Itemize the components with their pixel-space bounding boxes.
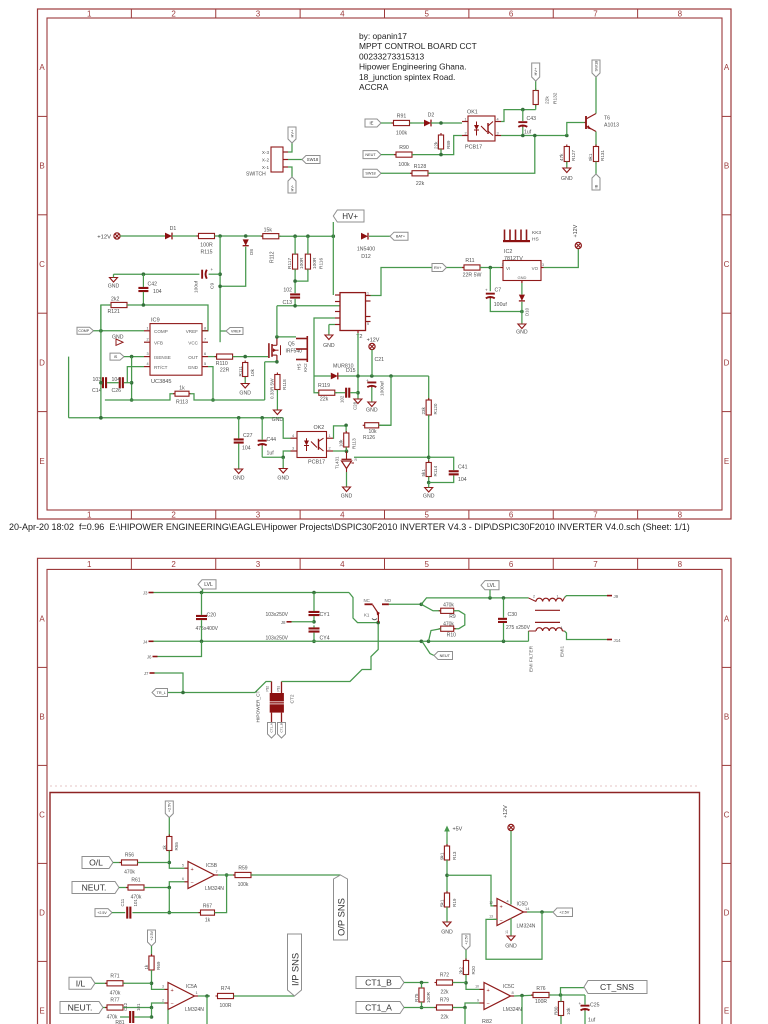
wire [154, 640, 529, 644]
label R82 [482, 1019, 492, 1024]
wire [427, 477, 431, 485]
svg-text:KK3: KK3 [532, 230, 541, 236]
svg-text:104: 104 [458, 477, 467, 483]
capacitor C41 104 [449, 465, 468, 484]
svg-text:P$2: P$2 [265, 686, 269, 692]
svg-text:E: E [39, 1006, 44, 1015]
svg-text:B: B [39, 162, 44, 171]
wire [101, 382, 132, 384]
svg-text:R76: R76 [536, 986, 545, 992]
wire [453, 982, 467, 984]
svg-text:5: 5 [182, 864, 184, 868]
svg-text:GND: GND [505, 944, 517, 950]
net flag +2.5V [95, 909, 112, 917]
wire [446, 837, 448, 846]
svg-text:−: − [487, 1002, 490, 1008]
wire [277, 304, 340, 308]
sheet 1 title text block [359, 31, 477, 92]
svg-text:+: + [171, 988, 174, 994]
capacitor C9 100uf [194, 267, 216, 293]
transistor T6 A1013 [585, 114, 620, 132]
svg-text:1k: 1k [162, 844, 167, 850]
resistor R9 470k [421, 603, 456, 620]
wire [127, 367, 144, 383]
wire [489, 268, 491, 292]
inductor core [535, 610, 560, 622]
svg-text:CT1_A: CT1_A [270, 723, 274, 732]
svg-text:C20: C20 [207, 613, 217, 619]
svg-text:J8: J8 [281, 620, 286, 625]
wire [282, 623, 379, 682]
svg-text:R90: R90 [399, 145, 409, 151]
wire [168, 818, 170, 837]
svg-text:+12V: +12V [573, 224, 579, 237]
svg-text:PCB17: PCB17 [308, 460, 325, 466]
wire [381, 172, 412, 174]
svg-text:LM324N: LM324N [185, 1007, 204, 1013]
svg-text:R113: R113 [351, 438, 356, 449]
resistor R76 100R [531, 986, 551, 1005]
svg-text:3: 3 [147, 352, 149, 356]
wire [294, 299, 296, 306]
svg-text:X-3: X-3 [262, 150, 270, 155]
wire [521, 302, 523, 324]
svg-text:10k: 10k [566, 1007, 571, 1015]
label EMI FILTER [529, 645, 535, 672]
svg-text:HV+: HV+ [289, 129, 294, 138]
svg-text:R61: R61 [131, 878, 140, 884]
svg-text:IC5B: IC5B [206, 863, 218, 869]
svg-text:GND: GND [561, 176, 573, 182]
svg-text:J6: J6 [147, 655, 152, 660]
capacitor C42 104 [138, 274, 161, 305]
sheet 1 drawing frame [38, 9, 732, 520]
wire [447, 875, 497, 906]
wire [208, 367, 215, 402]
wire [379, 376, 392, 425]
svg-text:8: 8 [204, 326, 206, 330]
sheet 1 caption [9, 522, 690, 532]
svg-text:X-1: X-1 [262, 165, 270, 170]
svg-text:GND: GND [323, 343, 335, 349]
svg-text:11: 11 [505, 930, 509, 934]
diode D10 [519, 295, 530, 316]
svg-text:12: 12 [489, 901, 493, 905]
wire [215, 873, 229, 912]
svg-text:101: 101 [136, 1003, 141, 1011]
net flag IB [592, 174, 600, 190]
resistor R11 22R 5W [462, 258, 482, 279]
svg-text:E: E [39, 457, 44, 466]
svg-text:R119: R119 [318, 383, 330, 389]
svg-text:102: 102 [340, 395, 345, 403]
sheet 2 drawing frame [38, 558, 732, 1024]
svg-text:100k: 100k [398, 162, 410, 168]
diode D8 [243, 239, 254, 255]
capacitor C13 102 [282, 288, 300, 306]
wire [288, 159, 302, 161]
svg-text:PCB17: PCB17 [465, 145, 482, 151]
svg-text:NEUT.: NEUT. [68, 1003, 93, 1013]
transistor Q5 IRF540 [269, 337, 302, 362]
svg-text:R10: R10 [447, 633, 456, 639]
svg-text:3: 3 [162, 985, 164, 989]
svg-text:R75: R75 [414, 993, 419, 1002]
svg-text:O/L: O/L [89, 858, 103, 868]
svg-text:GND: GND [188, 365, 199, 370]
svg-text:9: 9 [477, 998, 479, 1002]
net flag NEUT [422, 641, 453, 659]
svg-text:1uf: 1uf [267, 451, 275, 457]
pin J9 [607, 594, 619, 599]
svg-text:IC2: IC2 [504, 249, 512, 255]
net flag HV- [288, 177, 296, 193]
svg-text:+: + [487, 988, 490, 994]
svg-text:5k1: 5k1 [421, 469, 426, 477]
wire [453, 1003, 480, 1009]
svg-text:7: 7 [593, 9, 598, 18]
resistor R113 1k [173, 385, 191, 405]
svg-text:00233273315313: 00233273315313 [359, 51, 425, 61]
wire [181, 682, 271, 695]
wire [412, 136, 462, 157]
wire [595, 162, 597, 175]
svg-text:C43: C43 [527, 116, 537, 122]
wire [168, 888, 172, 915]
svg-text:CT2: CT2 [290, 694, 296, 703]
wire [209, 273, 221, 275]
svg-text:+: + [579, 1001, 582, 1006]
svg-text:R126: R126 [363, 435, 375, 441]
svg-text:+5V: +5V [453, 827, 463, 833]
svg-text:J14: J14 [614, 638, 622, 643]
svg-text:IC5A: IC5A [186, 984, 198, 990]
svg-text:R81: R81 [115, 1020, 124, 1024]
resistor R115 100R [197, 233, 217, 255]
svg-text:T2: T2 [356, 334, 363, 340]
wire [521, 283, 523, 295]
svg-text:R91: R91 [397, 114, 407, 120]
svg-text:HV+: HV+ [533, 67, 538, 76]
resistor R114 5k1 [421, 461, 438, 479]
svg-text:+12V: +12V [97, 235, 111, 241]
svg-text:10k: 10k [339, 439, 344, 447]
svg-text:+: + [366, 378, 369, 383]
svg-text:GND: GND [108, 284, 120, 290]
svg-text:NEUT.: NEUT. [82, 883, 107, 893]
svg-text:LVL: LVL [204, 582, 213, 588]
resistor R55 1k [162, 835, 179, 853]
svg-text:LM324N: LM324N [517, 923, 536, 929]
ground [108, 274, 120, 289]
resistor R126 10k [363, 423, 381, 441]
svg-text:+: + [500, 905, 503, 911]
svg-text:CT1_B: CT1_B [280, 723, 284, 732]
ground arrow at VFB pin 2 [112, 335, 124, 346]
svg-text:104: 104 [242, 446, 251, 452]
svg-text:IS: IS [114, 355, 118, 359]
svg-text:R115: R115 [200, 250, 212, 256]
wire [549, 988, 585, 997]
svg-text:C21: C21 [375, 357, 385, 363]
ground [441, 922, 453, 936]
svg-text:BAT+: BAT+ [396, 235, 406, 239]
svg-text:A1013: A1013 [604, 123, 619, 129]
wire [332, 236, 334, 295]
svg-text:3: 3 [292, 447, 294, 451]
svg-text:R11: R11 [465, 258, 474, 264]
net flag CT1_B [278, 723, 286, 739]
svg-text:+2.5V: +2.5V [168, 802, 172, 812]
wire [371, 350, 373, 376]
wire [99, 305, 103, 420]
svg-text:C27: C27 [243, 433, 253, 439]
svg-text:23k: 23k [421, 406, 426, 414]
svg-text:C: C [724, 260, 730, 269]
svg-text:GND: GND [341, 494, 353, 500]
wire [283, 418, 290, 438]
svg-text:HIPOWER_CT: HIPOWER_CT [256, 690, 262, 722]
net flag SW18 [302, 156, 320, 164]
svg-text:100R: 100R [535, 999, 547, 1005]
svg-text:R79: R79 [440, 998, 449, 1004]
capacitor CY1 103x250V [265, 611, 329, 618]
svg-text:7812TV: 7812TV [504, 256, 523, 262]
svg-text:D1: D1 [170, 226, 177, 232]
wire [218, 874, 235, 876]
svg-text:5: 5 [424, 511, 429, 520]
svg-text:UC3845: UC3845 [151, 379, 172, 385]
svg-text:2k2: 2k2 [111, 297, 119, 303]
connector X1 SWITCH [246, 147, 288, 178]
svg-text:R: R [355, 458, 358, 462]
svg-text:C12: C12 [123, 1002, 128, 1011]
net flag IE [365, 119, 381, 127]
net flag RV+ [432, 264, 447, 272]
svg-text:+2.5V: +2.5V [559, 911, 569, 915]
capacitor C25 1uf [579, 1001, 600, 1024]
svg-text:10: 10 [475, 985, 479, 989]
wire [101, 305, 111, 331]
net flag CT_SNS [584, 981, 647, 994]
wire [535, 81, 537, 110]
wire [198, 995, 210, 997]
svg-text:100R: 100R [426, 991, 431, 1003]
svg-text:100R: 100R [312, 257, 318, 269]
svg-text:HV+: HV+ [342, 212, 358, 221]
svg-text:C13: C13 [282, 300, 292, 306]
wire [124, 355, 144, 359]
supply +12V [503, 805, 514, 831]
wire [293, 269, 308, 293]
svg-text:+12V: +12V [367, 338, 380, 344]
svg-text:0.33R 5W: 0.33R 5W [269, 378, 274, 399]
wire [333, 424, 348, 439]
svg-text:MPPT CONTROL BOARD CCT: MPPT CONTROL BOARD CCT [359, 41, 477, 51]
svg-text:2: 2 [162, 998, 164, 1002]
svg-text:R121: R121 [108, 309, 121, 315]
svg-text:R71: R71 [110, 974, 119, 980]
optocoupler OK2 PC817 [291, 425, 334, 466]
svg-text:7: 7 [216, 869, 219, 874]
resistor R77 470k [105, 998, 125, 1021]
wire [105, 394, 174, 400]
svg-text:GND: GND [239, 391, 251, 397]
svg-text:1: 1 [367, 292, 369, 296]
wire [68, 357, 70, 418]
wire [567, 123, 585, 136]
wire [288, 143, 292, 152]
svg-text:1: 1 [87, 9, 92, 18]
svg-text:VREF: VREF [231, 329, 242, 333]
svg-text:CT1_A: CT1_A [365, 1003, 392, 1013]
capacitor C30 275 x250V [498, 612, 531, 631]
wire [292, 621, 315, 623]
wire [566, 162, 568, 169]
svg-text:SW18: SW18 [365, 172, 375, 176]
svg-text:IE: IE [370, 121, 374, 126]
svg-text:100uf: 100uf [194, 280, 200, 293]
net flag BAT+ [390, 232, 408, 240]
wire [312, 593, 316, 624]
label EMI1 [560, 645, 566, 657]
supply +12V [573, 224, 581, 248]
ground [423, 483, 435, 500]
svg-text:6: 6 [182, 877, 184, 881]
net flag +2.5V [148, 930, 156, 946]
resistor R111 10k [238, 361, 255, 379]
svg-text:2: 2 [147, 338, 149, 342]
net flag SW18 [592, 60, 600, 77]
resistor R120 23k [421, 398, 438, 417]
wire [112, 912, 125, 914]
svg-text:T6: T6 [604, 116, 610, 122]
svg-text:100k: 100k [238, 882, 249, 888]
svg-text:C44: C44 [267, 437, 277, 443]
svg-text:R67: R67 [203, 904, 212, 910]
svg-text:470k: 470k [124, 870, 135, 876]
svg-text:R59: R59 [238, 866, 247, 872]
optocoupler OK1 PC817 [462, 110, 501, 151]
svg-text:R9: R9 [449, 614, 456, 620]
svg-text:3: 3 [256, 9, 261, 18]
svg-text:8: 8 [678, 9, 683, 18]
svg-text:1000uf: 1000uf [380, 381, 386, 396]
wire [454, 611, 465, 629]
svg-text:A: A [39, 614, 45, 623]
svg-text:7: 7 [593, 511, 598, 520]
svg-text:C9: C9 [210, 283, 216, 289]
diode D2 [424, 113, 434, 127]
heatsink KK2 [296, 336, 308, 372]
svg-text:NO: NO [385, 598, 392, 603]
svg-text:J7: J7 [144, 671, 149, 676]
wire [218, 236, 222, 342]
svg-text:6: 6 [509, 511, 514, 520]
svg-text:C: C [724, 810, 730, 819]
svg-text:100R: 100R [299, 257, 305, 269]
wire [114, 272, 200, 276]
wire [349, 593, 380, 625]
svg-text:B: B [39, 712, 44, 721]
svg-text:P$1: P$1 [277, 686, 281, 692]
wire [595, 132, 597, 147]
svg-text:GND: GND [517, 275, 526, 280]
wire [371, 388, 373, 403]
wire [560, 995, 562, 1024]
capacitor C7 100uf [485, 288, 507, 309]
svg-text:R20: R20 [471, 966, 476, 975]
svg-text:R77: R77 [110, 998, 119, 1004]
svg-text:GND: GND [233, 476, 245, 482]
svg-text:4: 4 [292, 434, 294, 438]
svg-text:D12: D12 [361, 254, 371, 260]
net flag VREF [220, 328, 243, 335]
svg-text:Hipower Engineering Ghana.: Hipower Engineering Ghana. [359, 62, 467, 72]
svg-text:GND: GND [277, 476, 289, 482]
wire [123, 982, 152, 984]
wire [490, 299, 523, 314]
resistor R127 47k [559, 145, 576, 164]
svg-text:O/P SNS: O/P SNS [336, 898, 347, 936]
svg-text:103x250V: 103x250V [265, 636, 288, 642]
wire [279, 234, 335, 238]
svg-text:470k: 470k [443, 622, 454, 628]
svg-text:47k: 47k [559, 153, 564, 161]
svg-text:6: 6 [204, 352, 206, 356]
svg-text:NC: NC [364, 598, 370, 603]
wire [544, 249, 579, 268]
svg-text:R56: R56 [125, 853, 134, 859]
svg-text:TR_L: TR_L [157, 691, 166, 695]
resistor R10 470k [429, 622, 457, 642]
svg-text:J3: J3 [143, 591, 148, 596]
svg-text:C: C [39, 260, 45, 269]
svg-text:R72: R72 [440, 973, 449, 979]
capacitor C44 1uf [258, 418, 276, 458]
wire [333, 449, 348, 453]
pin J8 [281, 620, 292, 625]
diode D12 1N5400 [357, 233, 375, 260]
svg-text:COMP: COMP [154, 329, 168, 334]
wire [155, 673, 184, 693]
svg-text:C42: C42 [148, 282, 158, 288]
svg-text:2k2: 2k2 [459, 967, 464, 975]
wire [464, 975, 479, 990]
wire [190, 394, 265, 400]
svg-text:R69: R69 [156, 961, 161, 970]
svg-text:104: 104 [112, 377, 121, 383]
svg-text:I/P SNS: I/P SNS [290, 953, 301, 986]
svg-text:2: 2 [171, 9, 176, 18]
op-amp IC5A LM324N [162, 983, 204, 1013]
svg-text:C11: C11 [120, 898, 125, 906]
resistor R89 22k [434, 133, 452, 151]
wire [429, 476, 454, 483]
wire [244, 377, 246, 384]
op-amp IC9 UC3845 [144, 317, 208, 385]
wire [339, 374, 429, 378]
wire [527, 910, 553, 914]
svg-text:14: 14 [525, 906, 530, 911]
wire [565, 631, 608, 640]
svg-text:1k: 1k [179, 385, 185, 391]
svg-text:3: 3 [542, 263, 544, 267]
capacitor C26 104 [112, 377, 124, 394]
svg-text:D: D [39, 358, 45, 367]
svg-text:GND: GND [516, 330, 528, 336]
net flag NEUT. [72, 882, 119, 894]
